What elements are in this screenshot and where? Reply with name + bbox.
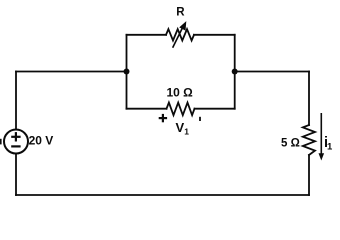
junction node right <box>232 69 238 75</box>
resistor 5 ohm zigzag (vertical) <box>303 125 315 155</box>
voltage source circle <box>4 130 28 154</box>
svg-text:1: 1 <box>327 141 333 152</box>
wire top-left horizontal from source branch to left junction <box>16 71 127 73</box>
source plus sign <box>11 132 20 141</box>
svg-text:5 Ω: 5 Ω <box>281 137 300 149</box>
current arrow i1 head <box>319 153 325 160</box>
wire top branch left lead <box>127 34 167 36</box>
polarity plus of V1 <box>159 114 167 122</box>
wire inner-loop left vertical <box>126 35 128 109</box>
svg-text:V: V <box>176 120 185 135</box>
wire top branch right lead <box>194 34 235 36</box>
svg-text:10 Ω: 10 Ω <box>167 86 194 100</box>
current arrow i1 shaft <box>320 113 322 155</box>
rheostat arrowhead <box>180 22 186 30</box>
svg-text:20 V: 20 V <box>29 134 54 148</box>
svg-text:R: R <box>176 7 185 19</box>
polarity tick (minus) of V1 <box>199 117 201 121</box>
resistor 10 ohm zigzag <box>167 103 195 116</box>
svg-text:1: 1 <box>184 126 189 136</box>
left edge stray mark <box>0 139 2 145</box>
wire bottom branch left lead <box>127 108 167 110</box>
source minus sign <box>11 145 20 147</box>
wire bottom branch right lead <box>195 108 235 110</box>
junction node left <box>124 69 130 75</box>
wire top-right horizontal from right junction to right branch <box>235 71 309 73</box>
wire right vertical upper (to 5 ohm) <box>308 72 310 126</box>
wire inner-loop right vertical <box>234 35 236 109</box>
wire bottom horizontal <box>16 194 309 196</box>
wire right vertical lower (from 5 ohm) <box>308 155 310 195</box>
wire left vertical upper (source top lead) <box>15 72 17 130</box>
resistor R zigzag (variable) <box>166 29 194 40</box>
rheostat arrow shaft <box>173 26 184 47</box>
wire left vertical lower (source bottom lead) <box>15 154 17 196</box>
